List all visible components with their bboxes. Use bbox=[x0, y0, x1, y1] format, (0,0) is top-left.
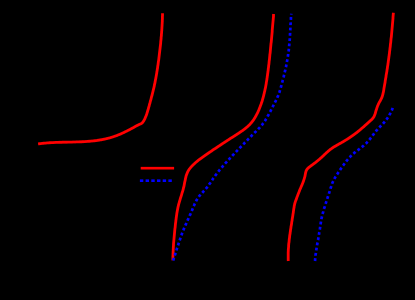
red curve branch 3 (right) bbox=[288, 13, 393, 261]
legend blue dashed line sample bbox=[140, 179, 173, 182]
red curve branch 1 (left) bbox=[38, 13, 162, 144]
red curve branch 2 (middle) bbox=[173, 14, 274, 261]
legend red solid line sample bbox=[141, 167, 174, 170]
blue dotted curve branch 3 (right) bbox=[315, 106, 393, 261]
blue dotted curve branch 2 (middle) bbox=[173, 14, 291, 261]
